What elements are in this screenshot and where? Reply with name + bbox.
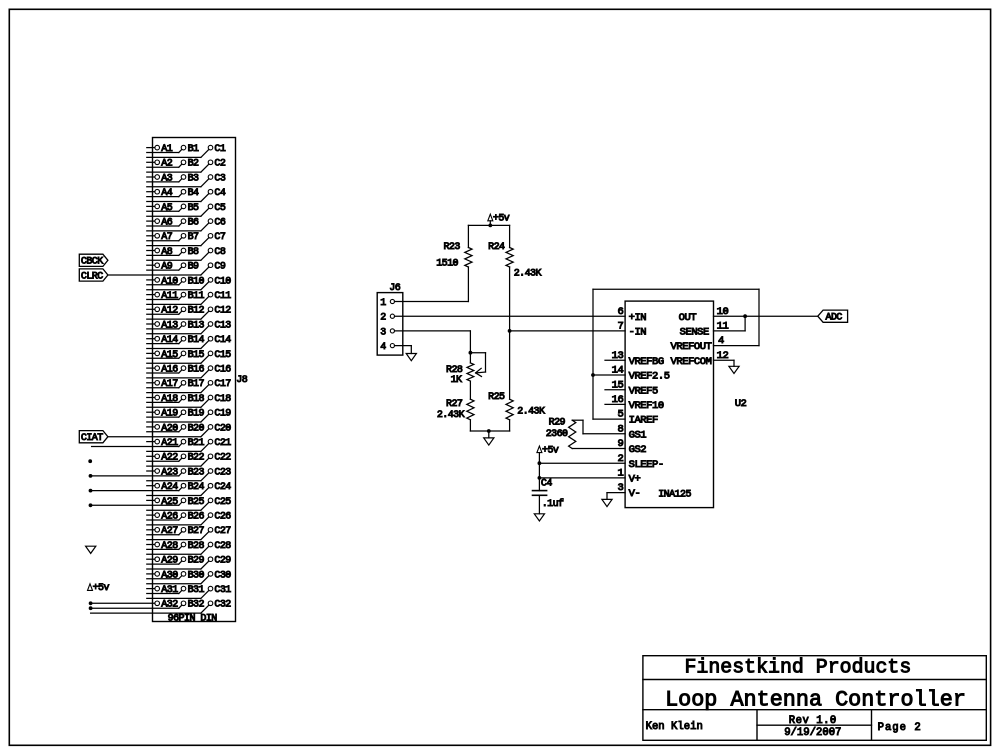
svg-text:C12: C12 [214, 306, 231, 317]
svg-text:SENSE: SENSE [680, 327, 709, 339]
svg-text:A13: A13 [161, 320, 178, 331]
svg-text:C3: C3 [214, 173, 225, 184]
svg-text:C29: C29 [214, 556, 231, 567]
svg-text:C28: C28 [214, 541, 231, 552]
svg-text:J6: J6 [389, 283, 400, 294]
svg-text:B20: B20 [188, 423, 205, 434]
svg-text:V+: V+ [629, 474, 641, 486]
svg-text:1: 1 [380, 298, 386, 309]
svg-text:A10: A10 [161, 276, 178, 287]
svg-text:C22: C22 [214, 453, 231, 464]
svg-text:A29: A29 [161, 556, 178, 567]
svg-text:C4: C4 [214, 188, 225, 199]
svg-text:A3: A3 [161, 173, 172, 184]
svg-text:R29: R29 [549, 418, 566, 429]
svg-text:B22: B22 [188, 453, 205, 464]
svg-text:C2: C2 [214, 159, 225, 170]
svg-text:B16: B16 [188, 365, 205, 376]
svg-text:A27: A27 [161, 526, 178, 537]
svg-text:C25: C25 [214, 497, 231, 508]
svg-text:R27: R27 [446, 399, 463, 410]
svg-text:U2: U2 [735, 398, 747, 410]
svg-text:B9: B9 [188, 262, 199, 273]
svg-text:C20: C20 [214, 423, 231, 434]
svg-text:C26: C26 [214, 512, 231, 523]
svg-text:A12: A12 [161, 306, 178, 317]
svg-text:B15: B15 [188, 350, 205, 361]
svg-text:C30: C30 [214, 570, 231, 581]
svg-text:2360: 2360 [546, 429, 568, 440]
svg-text:A18: A18 [161, 394, 178, 405]
svg-text:A20: A20 [161, 423, 178, 434]
svg-text:VREFCOM: VREFCOM [671, 356, 712, 368]
svg-text:SLEEP-: SLEEP- [629, 459, 664, 471]
svg-text:A21: A21 [161, 438, 178, 449]
svg-text:Ken Klein: Ken Klein [646, 721, 703, 733]
svg-text:VREFOUT: VREFOUT [671, 341, 712, 353]
svg-text:2: 2 [380, 313, 386, 324]
svg-text:GS1: GS1 [629, 429, 647, 441]
svg-text:CIAT: CIAT [81, 433, 103, 444]
svg-text:3: 3 [380, 327, 386, 338]
svg-text:A2: A2 [161, 159, 172, 170]
svg-text:B14: B14 [188, 335, 205, 346]
svg-text:B25: B25 [188, 497, 205, 508]
svg-text:B18: B18 [188, 394, 205, 405]
svg-text:A28: A28 [161, 541, 178, 552]
svg-text:A7: A7 [161, 232, 172, 243]
svg-text:IAREF: IAREF [629, 415, 658, 427]
svg-text:INA125: INA125 [658, 489, 691, 500]
svg-text:B7: B7 [188, 232, 199, 243]
svg-text:R25: R25 [488, 392, 505, 403]
svg-text:A25: A25 [161, 497, 178, 508]
svg-text:B3: B3 [188, 173, 199, 184]
svg-text:6: 6 [617, 306, 623, 318]
svg-text:C5: C5 [214, 203, 225, 214]
svg-text:V-: V- [629, 488, 641, 500]
svg-text:C23: C23 [214, 467, 231, 478]
svg-text:A8: A8 [161, 247, 172, 258]
svg-text:+5v: +5v [542, 445, 559, 456]
svg-text:B24: B24 [188, 482, 205, 493]
svg-text:B2: B2 [188, 159, 199, 170]
svg-text:9/19/2007: 9/19/2007 [784, 727, 841, 739]
svg-text:R23: R23 [443, 242, 460, 253]
svg-text:A22: A22 [161, 453, 178, 464]
svg-text:C1: C1 [214, 144, 225, 155]
svg-text:.1uf: .1uf [542, 498, 564, 510]
svg-text:Rev 1.0: Rev 1.0 [789, 715, 837, 727]
svg-text:A23: A23 [161, 467, 178, 478]
svg-text:1510: 1510 [436, 259, 458, 270]
svg-text:B6: B6 [188, 218, 199, 229]
svg-text:A17: A17 [161, 379, 178, 390]
svg-text:B8: B8 [188, 247, 199, 258]
svg-text:VREF2.5: VREF2.5 [629, 371, 670, 383]
svg-text:ADC: ADC [826, 313, 843, 324]
svg-text:OUT: OUT [679, 312, 697, 324]
svg-text:A32: A32 [161, 600, 178, 611]
svg-text:B13: B13 [188, 320, 205, 331]
svg-text:C6: C6 [214, 218, 225, 229]
svg-text:B32: B32 [188, 600, 205, 611]
svg-text:C13: C13 [214, 320, 231, 331]
svg-text:A19: A19 [161, 409, 178, 420]
svg-text:B11: B11 [188, 291, 205, 302]
svg-text:B26: B26 [188, 512, 205, 523]
svg-text:2.43K: 2.43K [437, 410, 465, 421]
svg-text:B30: B30 [188, 570, 205, 581]
svg-text:4: 4 [380, 342, 386, 353]
svg-text:C8: C8 [214, 247, 225, 258]
svg-text:CBCK: CBCK [81, 257, 103, 268]
svg-text:C10: C10 [214, 276, 231, 287]
svg-text:J8: J8 [236, 375, 247, 386]
svg-text:C14: C14 [214, 335, 231, 346]
svg-text:-IN: -IN [629, 327, 647, 339]
svg-text:A15: A15 [161, 350, 178, 361]
svg-text:B31: B31 [188, 585, 205, 596]
svg-text:VREFBG: VREFBG [629, 356, 664, 368]
svg-text:7: 7 [617, 321, 623, 333]
svg-text:B29: B29 [188, 556, 205, 567]
svg-text:B10: B10 [188, 276, 205, 287]
svg-text:A6: A6 [161, 218, 172, 229]
svg-text:C15: C15 [214, 350, 231, 361]
svg-text:B1: B1 [188, 144, 199, 155]
svg-text:Loop Antenna Controller: Loop Antenna Controller [665, 687, 966, 712]
svg-text:C18: C18 [214, 394, 231, 405]
svg-text:B5: B5 [188, 203, 199, 214]
svg-text:C4: C4 [541, 478, 552, 489]
svg-text:A5: A5 [161, 203, 172, 214]
svg-text:A30: A30 [161, 570, 178, 581]
svg-text:B28: B28 [188, 541, 205, 552]
svg-text:C9: C9 [214, 262, 225, 273]
svg-text:A24: A24 [161, 482, 178, 493]
svg-text:Finestkind Products: Finestkind Products [685, 655, 912, 678]
svg-text:C24: C24 [214, 482, 231, 493]
svg-text:96PIN DIN: 96PIN DIN [168, 614, 218, 625]
svg-text:C7: C7 [214, 232, 225, 243]
svg-text:2.43K: 2.43K [514, 268, 542, 279]
svg-text:C27: C27 [214, 526, 231, 537]
svg-text:C31: C31 [214, 585, 231, 596]
svg-text:C21: C21 [214, 438, 231, 449]
svg-text:A16: A16 [161, 365, 178, 376]
svg-text:VREF10: VREF10 [629, 400, 664, 412]
svg-text:R24: R24 [488, 242, 505, 253]
svg-text:B19: B19 [188, 409, 205, 420]
svg-text:+5v: +5v [493, 214, 510, 225]
svg-text:VREF5: VREF5 [629, 385, 658, 397]
svg-text:B17: B17 [188, 379, 205, 390]
svg-text:A1: A1 [161, 144, 172, 155]
svg-text:A26: A26 [161, 512, 178, 523]
svg-text:+5v: +5v [93, 583, 110, 594]
svg-text:B23: B23 [188, 467, 205, 478]
svg-text:B27: B27 [188, 526, 205, 537]
svg-text:2.43K: 2.43K [517, 407, 545, 418]
svg-text:C19: C19 [214, 409, 231, 420]
svg-text:Page 2: Page 2 [878, 722, 922, 734]
svg-text:A9: A9 [161, 262, 172, 273]
svg-text:B4: B4 [188, 188, 199, 199]
svg-text:1K: 1K [451, 375, 462, 386]
svg-text:B12: B12 [188, 306, 205, 317]
svg-text:C32: C32 [214, 600, 231, 611]
svg-text:GS2: GS2 [629, 444, 647, 456]
svg-text:B21: B21 [188, 438, 205, 449]
svg-text:A31: A31 [161, 585, 178, 596]
svg-text:+IN: +IN [629, 312, 647, 324]
svg-text:C16: C16 [214, 365, 231, 376]
svg-text:A4: A4 [161, 188, 172, 199]
svg-text:C17: C17 [214, 379, 231, 390]
svg-text:A14: A14 [161, 335, 178, 346]
svg-text:C11: C11 [214, 291, 231, 302]
svg-text:A11: A11 [161, 291, 178, 302]
svg-text:CLRC: CLRC [81, 271, 103, 282]
